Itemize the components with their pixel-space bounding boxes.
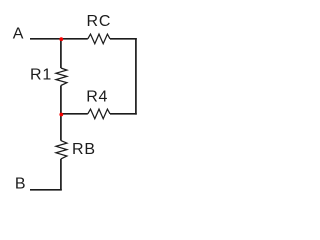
wire B horizontal: [30, 189, 62, 191]
resistor R4: [88, 109, 110, 119]
resistor R1: [56, 68, 67, 86]
svg-text:B: B: [15, 175, 26, 192]
wire RC to right corner: [110, 38, 137, 40]
resistor RB: [56, 141, 67, 159]
resistor RC: [88, 34, 110, 44]
junction dot node A/R1: [59, 37, 63, 41]
wire right vertical: [135, 38, 137, 115]
wire RB to bottom corner: [60, 159, 62, 191]
svg-text:RC: RC: [87, 13, 112, 30]
wire R4 to right corner: [110, 113, 137, 115]
svg-text:R1: R1: [30, 66, 52, 83]
svg-text:A: A: [13, 25, 24, 42]
wire junction2 to R4: [62, 113, 88, 115]
junction dot R1/R4/RB: [59, 113, 63, 117]
wire A to junction: [30, 38, 62, 40]
svg-text:R4: R4: [86, 88, 108, 105]
wire junction to RC: [62, 38, 88, 40]
svg-text:RB: RB: [72, 141, 96, 158]
wire top junction down to R1: [60, 38, 62, 68]
wire R1 to junction2: [60, 86, 62, 115]
wire junction2 down to RB: [60, 114, 62, 141]
